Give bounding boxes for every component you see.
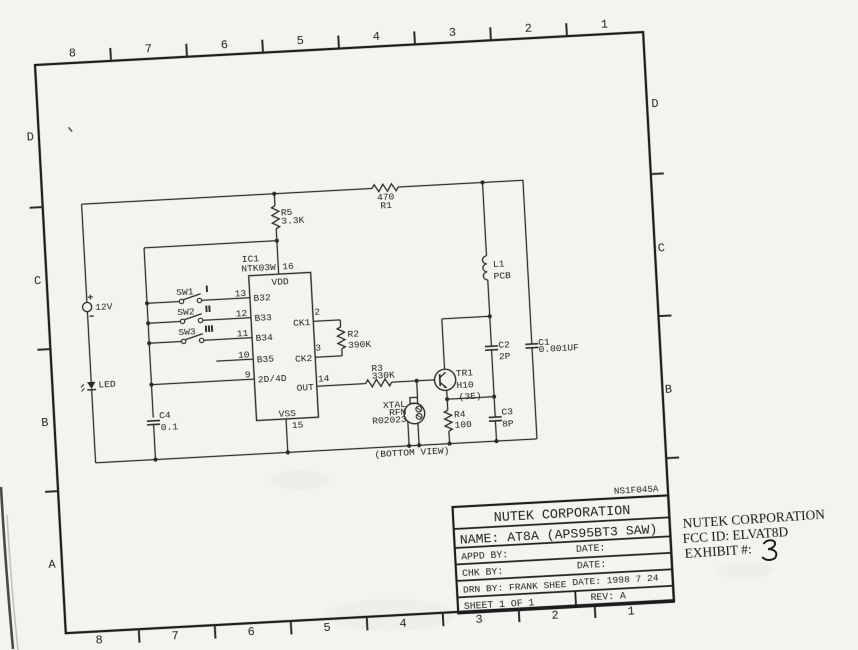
svg-text:11: 11 [237, 328, 249, 340]
svg-text:B32: B32 [253, 292, 271, 304]
source V1 12V [82, 293, 113, 316]
scan edge streak dark [1, 487, 13, 649]
svg-text:14: 14 [318, 373, 330, 385]
svg-text:2: 2 [551, 608, 559, 622]
wire R5 to pin16 [275, 229, 278, 241]
svg-text:8P: 8P [502, 418, 514, 430]
svg-text:15: 15 [292, 420, 304, 432]
svg-text:3: 3 [315, 342, 322, 353]
svg-text:13: 13 [234, 288, 246, 300]
node base junction [414, 379, 418, 383]
svg-text:VSS: VSS [278, 408, 296, 420]
svg-text:0.1: 0.1 [161, 421, 179, 433]
svg-text:D: D [26, 130, 34, 144]
pin 16 VDD [269, 240, 295, 288]
resistor R2 [337, 325, 372, 351]
svg-text:C2: C2 [498, 339, 510, 351]
handwritten exhibit number 3 [763, 540, 777, 560]
transistor TR1 [434, 367, 482, 404]
left ruler letters D C B A [25, 130, 58, 572]
node top-R5 junction [272, 192, 276, 196]
bottom ruler numbers 8-1 [95, 604, 635, 647]
wire LED to bottom rail [92, 390, 96, 463]
op-amp U1 IC1 box [249, 272, 319, 420]
svg-text:2P: 2P [499, 351, 511, 363]
pin 9 wire [149, 369, 255, 387]
title appd row [461, 542, 606, 562]
top ruler numbers 8-1 [68, 17, 608, 60]
right ruler letters D C B [649, 97, 674, 397]
svg-text:5: 5 [296, 34, 304, 48]
wire 12V rail upper [82, 204, 87, 302]
svg-text:B34: B34 [255, 332, 273, 344]
svg-text:R2: R2 [347, 328, 359, 340]
scan edge streak light [7, 515, 18, 650]
svg-text:10: 10 [238, 349, 250, 361]
svg-text:4: 4 [399, 617, 407, 631]
svg-text:CK1: CK1 [293, 317, 311, 329]
svg-text:330K: 330K [372, 370, 396, 382]
svg-text:3.3K: 3.3K [281, 214, 305, 226]
svg-text:B33: B33 [254, 312, 272, 324]
pin 10 stub wire [216, 349, 254, 362]
IC1 labels [241, 252, 277, 274]
wire C1 branch top [523, 180, 532, 344]
capacitor C4 [146, 409, 178, 434]
wire C2 to emitter node [492, 350, 496, 417]
svg-text:DATE:: DATE: [577, 559, 607, 572]
svg-text:SW2: SW2 [177, 306, 195, 318]
wire R3 to base node [392, 381, 417, 382]
scan smudges [270, 470, 773, 631]
svg-text:VDD: VDD [271, 276, 289, 288]
node top-L1 junction [480, 180, 484, 184]
node collector-L1 junction [488, 314, 492, 318]
svg-text:R02023: R02023 [372, 414, 407, 427]
svg-text:H10: H10 [456, 379, 474, 391]
wire C1 to bottom rail [532, 348, 537, 439]
svg-text:DATE:: DATE: [576, 542, 606, 555]
border frame [35, 32, 674, 633]
svg-text:12V: 12V [95, 301, 113, 313]
svg-text:100: 100 [454, 419, 472, 431]
node R5-VDD junction [275, 238, 279, 242]
svg-text:0.001UF: 0.001UF [538, 342, 579, 355]
svg-text:CHK BY:: CHK BY: [462, 566, 504, 579]
title block frame [453, 495, 674, 613]
right ruler ticks [651, 173, 679, 458]
svg-text:6: 6 [247, 625, 255, 639]
wire emitter to C2C3 node [447, 397, 494, 400]
LED D1 [81, 379, 117, 392]
wire XTAL leads [406, 421, 422, 448]
resistor R5 [271, 204, 305, 229]
svg-text:CK2: CK2 [295, 353, 313, 365]
wire R5 top [273, 194, 276, 206]
svg-text:C3: C3 [501, 406, 513, 418]
wire TR1 emitter [446, 390, 448, 399]
svg-text:R1: R1 [380, 200, 392, 212]
svg-text:B35: B35 [256, 353, 274, 365]
wire C3 to bottom rail [493, 421, 498, 444]
svg-text:TR1: TR1 [456, 367, 474, 379]
node emitter junction [445, 397, 449, 401]
svg-text:B: B [41, 416, 49, 430]
pin 3 wire CK2 [314, 341, 342, 357]
wire L1 to collector node [488, 280, 492, 346]
svg-text:C4: C4 [159, 410, 171, 422]
capacitor C3 [488, 406, 514, 430]
pin 2 wire CK1 [312, 305, 340, 328]
resistor R4 [444, 398, 474, 446]
pin 15 VSS [278, 408, 305, 453]
svg-text:12: 12 [235, 308, 247, 320]
svg-text:B: B [665, 383, 673, 397]
crystal XTAL X1 [370, 380, 425, 426]
svg-text:2: 2 [524, 22, 532, 36]
switch SW3 [146, 323, 252, 345]
IC1 pin names right [293, 317, 315, 394]
svg-text:16: 16 [282, 261, 294, 273]
node C2-C3 junction [492, 394, 496, 398]
svg-text:9: 9 [245, 369, 252, 380]
svg-text:LED: LED [98, 379, 116, 391]
node C4-bottom junction [153, 457, 157, 461]
wire 12V to LED [87, 312, 91, 382]
left ruler ticks [30, 207, 58, 492]
svg-text:6: 6 [220, 38, 228, 52]
svg-text:SW1: SW1 [176, 286, 194, 298]
wire switch rail top [144, 241, 286, 418]
wire bottom rail [96, 439, 537, 463]
svg-text:(3E): (3E) [458, 390, 482, 402]
bottom ruler ticks [139, 605, 596, 643]
svg-text:1: 1 [600, 17, 608, 31]
svg-text:8: 8 [95, 633, 103, 647]
svg-text:SW3: SW3 [178, 326, 196, 338]
svg-text:C: C [657, 241, 665, 255]
switch SW2 [145, 303, 251, 325]
IC1 pin names left [253, 291, 287, 385]
svg-text:PCB: PCB [493, 270, 511, 282]
title drn row [463, 573, 660, 596]
top ruler ticks [110, 23, 567, 61]
wire TR1 collector [442, 316, 493, 369]
svg-text:3: 3 [448, 26, 456, 40]
svg-text:NTK03W: NTK03W [241, 262, 276, 275]
switch SW1 [144, 283, 250, 305]
svg-text:OUT: OUT [296, 382, 314, 394]
pin 14 wire OUT [316, 371, 366, 386]
capacitor C2 [485, 339, 511, 363]
svg-text:4: 4 [372, 30, 380, 44]
FCC exhibit text [681, 507, 827, 561]
svg-text:L1: L1 [493, 258, 505, 270]
wire base node to TR1 [417, 379, 435, 382]
title sheet row [464, 590, 627, 612]
schematic page (rotated) [21, 15, 688, 650]
wire top rail [82, 180, 524, 204]
wire C4 to bottom rail [154, 425, 156, 460]
svg-text:8: 8 [68, 46, 76, 60]
svg-text:D: D [651, 97, 659, 111]
svg-text:390K: 390K [348, 339, 372, 351]
resistor R3 [365, 362, 396, 387]
svg-text:7: 7 [171, 629, 179, 643]
svg-text:3: 3 [475, 613, 483, 627]
inductor L1 [482, 255, 511, 283]
wire L1 top [483, 182, 487, 255]
svg-text:1: 1 [627, 604, 635, 618]
stray pen mark [68, 127, 72, 132]
resistor R1 [372, 183, 399, 211]
svg-text:7: 7 [144, 42, 152, 56]
svg-text:REV: A: REV: A [590, 590, 626, 603]
svg-text:5: 5 [323, 621, 331, 635]
svg-text:2: 2 [314, 306, 321, 317]
capacitor C1 [525, 335, 579, 356]
svg-text:C: C [34, 274, 42, 288]
svg-text:2D/4D: 2D/4D [258, 373, 288, 386]
title chk row [462, 559, 607, 579]
